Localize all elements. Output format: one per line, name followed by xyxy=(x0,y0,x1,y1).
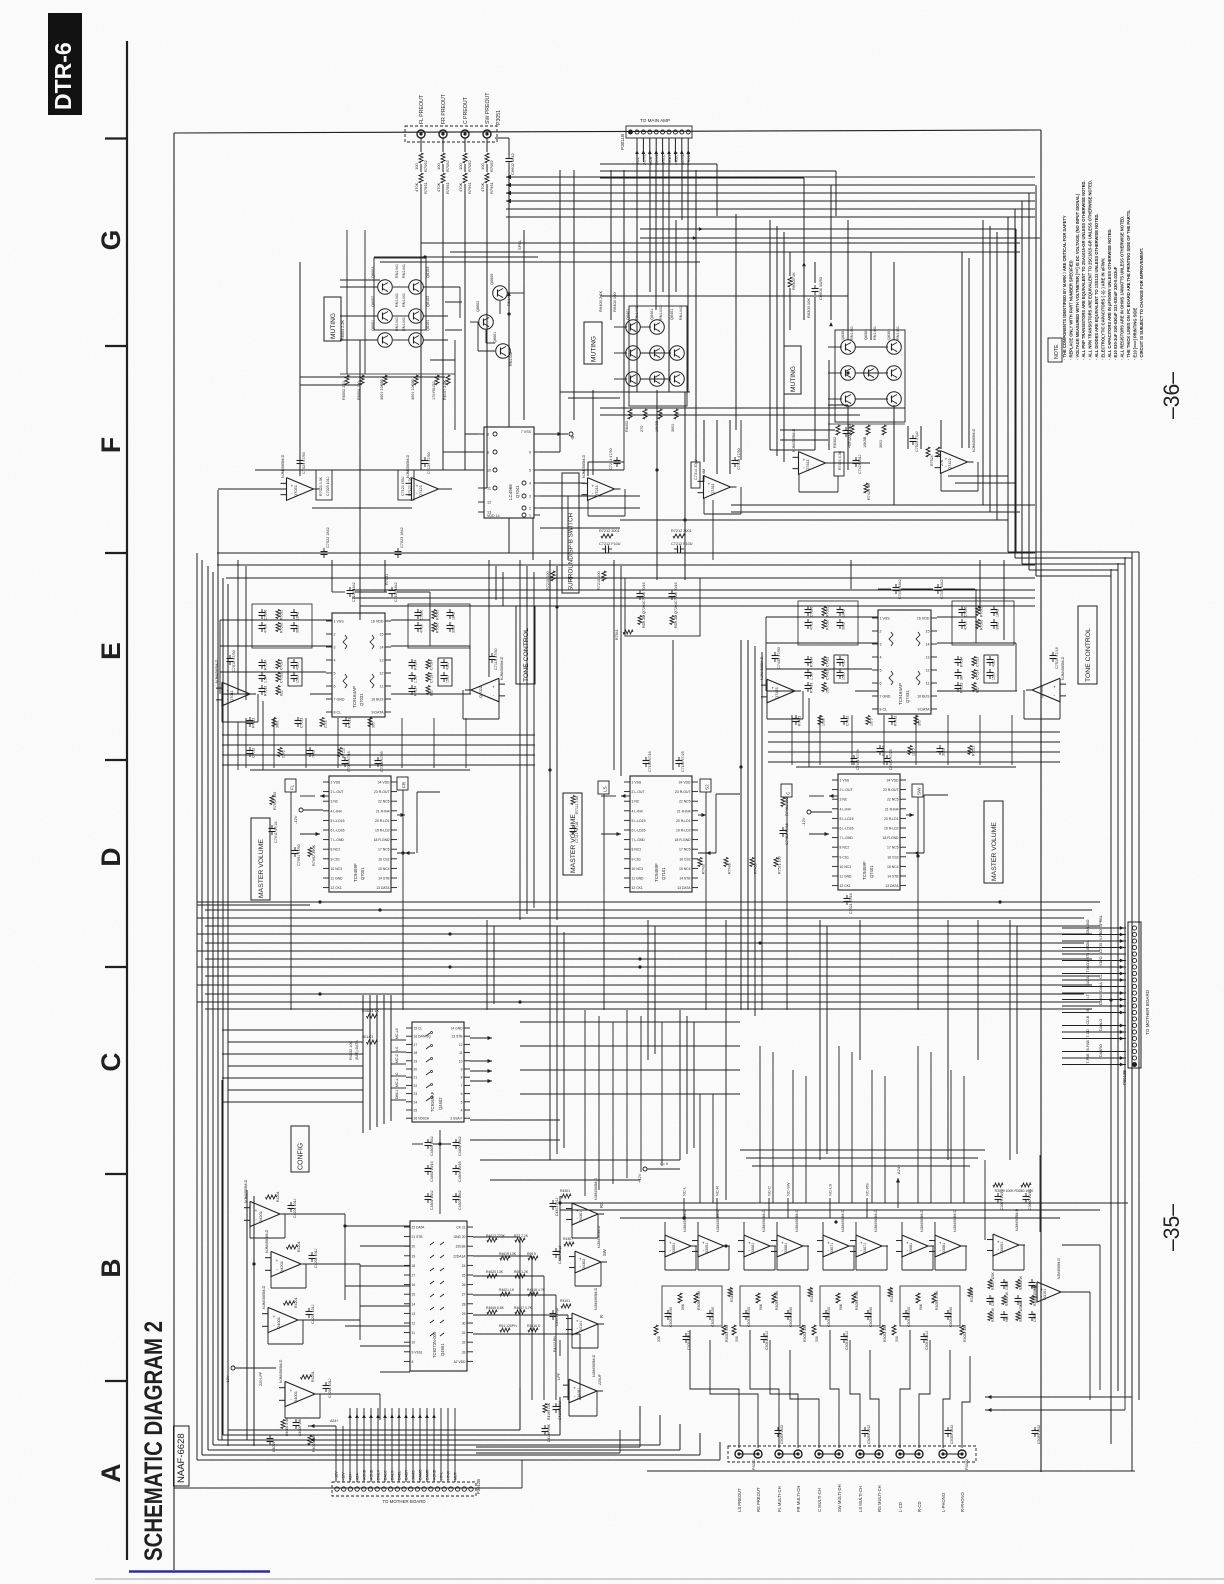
caps above mv left xyxy=(342,751,385,772)
component cluster tone right A xyxy=(798,601,858,645)
op-amp Q4201 bottom-left 2 xyxy=(265,1229,318,1288)
capacitors above tone left xyxy=(332,582,430,602)
op-amp Q3061 output row 3 xyxy=(738,1209,776,1270)
op-amp Q3071 output row 5 xyxy=(817,1209,855,1270)
op-amp Q7311 xyxy=(691,448,741,514)
supply -12V stub left xyxy=(293,808,323,824)
labels NC nodes xyxy=(682,1182,870,1218)
supply +12V stub xyxy=(637,1162,680,1183)
wire -B arrow xyxy=(534,432,575,440)
op-amp Q7461 xyxy=(1024,647,1066,719)
node C xyxy=(781,784,792,797)
wire segs muting1 area xyxy=(300,230,524,553)
connector P3051 preout xyxy=(405,92,502,142)
op-amp Q3101 xyxy=(1031,1258,1067,1303)
node LS xyxy=(598,781,609,794)
op-amp Q7421 upper right xyxy=(910,428,979,491)
grid ruler line xyxy=(126,41,128,1560)
node FL xyxy=(285,779,296,792)
components below tone right xyxy=(793,715,976,756)
resistors below muting 3 xyxy=(788,272,905,448)
wires switch section xyxy=(421,184,1035,580)
resistor pair R7212 xyxy=(599,529,693,553)
components below op-amp Q4001 xyxy=(267,1417,317,1452)
node FR xyxy=(397,777,408,790)
wires to bottom connector xyxy=(308,1408,458,1482)
blue mark bottom-left xyxy=(129,1570,270,1573)
grid tick 4 xyxy=(105,759,127,761)
op-amp Q4001 bottom-left 3 xyxy=(262,1285,315,1344)
resistor groups below op-amp row xyxy=(654,1286,974,1350)
op-amp Q7051 input buffer xyxy=(218,262,332,500)
wires preout pairs xyxy=(739,1453,962,1455)
IC TC9164AF Q4602 config switch xyxy=(406,1022,470,1122)
svg-text:DTR-6: DTR-6 xyxy=(50,42,76,110)
op-amp Q7121 input buffer xyxy=(312,340,452,620)
op-amp Q7021 xyxy=(463,649,505,719)
op-amp Q7011 xyxy=(215,650,258,722)
wire band second xyxy=(380,243,1020,262)
IC TC9164AP Q7031 tone left xyxy=(326,613,391,717)
arrows from Q4602 xyxy=(470,1036,492,1083)
component cluster tone left C xyxy=(259,658,303,696)
scan edge bottom xyxy=(95,1578,1224,1580)
op-amp Q4302 SW xyxy=(553,1225,608,1286)
arrow wires from right edge xyxy=(985,1390,1132,1412)
IC TC9164AP Q7431 tone right xyxy=(872,610,937,714)
capacitor row C4801 C4803 xyxy=(425,1160,463,1214)
wires top-right quadrant xyxy=(600,164,1040,552)
IC TC9459F Q7401 master volume C/SW xyxy=(832,774,906,890)
op-amp Q3071 output row 6 xyxy=(850,1209,888,1270)
op-amp Q7211 xyxy=(582,448,626,516)
component cluster tone left B xyxy=(408,604,470,648)
op-amp Q4181 LPF xyxy=(542,1354,604,1442)
caps above mv middle xyxy=(643,751,686,772)
label MASTER VOLUME middle xyxy=(563,793,582,875)
grid tick 5 xyxy=(105,966,127,968)
label MUTING 1 xyxy=(324,297,341,341)
wire bus central band xyxy=(197,900,1100,1009)
label MASTER VOLUME right xyxy=(984,801,1003,883)
op-amp Q3061 output row 4 xyxy=(771,1209,809,1270)
wires tone control lower rows xyxy=(222,715,1060,768)
label MUTING 3 xyxy=(784,346,801,394)
wire verticals middle xyxy=(238,560,1004,1016)
capacitors C7022 on band xyxy=(321,527,405,558)
wire elbows bottom-left bus xyxy=(197,1388,720,1460)
wires from P3011B xyxy=(635,138,691,360)
grid tick 6 xyxy=(105,1173,127,1175)
supply -12V stub right xyxy=(801,810,832,826)
capacitors C3079 C3080 xyxy=(993,1183,1034,1210)
op-amp Q4001 bottom-left 4 xyxy=(279,1359,332,1418)
supply -12V stub bottom-left xyxy=(225,1366,276,1386)
op-amp Q3091 xyxy=(987,1208,1025,1270)
arrows mv right xyxy=(698,794,924,914)
op-amp Q3081 output row 8 xyxy=(929,1209,967,1270)
junction dots scattered xyxy=(252,312,1112,1265)
op-amp Q3081 output row 7 xyxy=(896,1209,934,1270)
op-amp Q4101 R xyxy=(550,1287,605,1356)
resistor cluster far right xyxy=(987,1271,1038,1322)
wires staircase to preout connector xyxy=(690,1330,970,1448)
component labels right of Q4601 xyxy=(486,1234,546,1332)
arrows into P3013B xyxy=(1062,915,1126,1066)
component cluster tone right B xyxy=(952,601,1014,645)
IC TC9459F Q7001 master volume FL/FR xyxy=(323,776,397,892)
page tab DTR-6 xyxy=(48,13,82,115)
resistor network below P3051 xyxy=(414,138,494,470)
op-amp Q3051 output row 2 xyxy=(692,1209,730,1270)
caps above mv right xyxy=(851,749,894,770)
grid tick 7 xyxy=(105,1380,127,1382)
wire bus middle band xyxy=(197,490,1139,1460)
component cluster tone right D xyxy=(955,655,999,693)
op-amp Q4301 RS xyxy=(550,1177,605,1238)
wire horizontals lower-middle xyxy=(222,1030,985,1372)
wire verticals upper-middle xyxy=(421,170,997,560)
note text block xyxy=(1062,180,1144,360)
grid tick 3 xyxy=(105,552,127,554)
wire band lower 1060-1140 xyxy=(520,1022,740,1094)
wires bottom-left region xyxy=(222,1080,380,1446)
component cluster tone left A xyxy=(252,604,312,648)
arrows mv left xyxy=(269,792,416,866)
grid tick 1 xyxy=(105,137,127,139)
resistors below muting 2 xyxy=(598,291,690,432)
connector P3013B to mother board xyxy=(1122,922,1150,1085)
capacitors above tone right xyxy=(878,579,975,599)
capacitor C6602 xyxy=(495,138,515,280)
wire verticals lower-middle xyxy=(291,905,1017,1200)
resistor R4633 xyxy=(349,1009,379,1060)
capacitor row C4805 C4806 xyxy=(412,1130,462,1160)
wire verticals band to output row xyxy=(585,1010,964,1203)
label CONFIG xyxy=(291,1126,309,1172)
connector P3041 preout strip xyxy=(728,1446,976,1512)
wire bus above op-amp row xyxy=(560,1196,1128,1260)
zener group Q7201 xyxy=(615,578,700,640)
wires far right column xyxy=(985,1155,1100,1400)
transistor trio Q6605 xyxy=(470,274,524,366)
frame border xyxy=(174,130,1135,1570)
component cluster tone left D xyxy=(409,658,453,696)
capacitor row C4892 C4804 xyxy=(425,1161,463,1182)
components below tone left xyxy=(247,574,390,758)
label MASTER VOLUME left xyxy=(251,818,270,900)
wires from Q4601 right xyxy=(473,1237,580,1400)
wires muting3 feeds xyxy=(790,220,894,470)
IC TC9459F Q7101 master volume LS/RS xyxy=(624,776,698,892)
node S2 xyxy=(700,779,711,792)
resistor R7215 xyxy=(546,571,606,590)
connector P3012B to mother board xyxy=(332,1479,481,1504)
op-amp Q4201 bottom-left 1 xyxy=(244,1179,297,1238)
label TONE CONTROL left xyxy=(516,606,535,684)
wires tone sections xyxy=(220,560,1017,1010)
label MUTING 2 xyxy=(584,322,602,364)
wires master volume area xyxy=(197,790,948,910)
connector P3011B to main amp xyxy=(620,118,692,150)
grid tick 2 xyxy=(105,345,127,347)
IC LC4966 Q7041 switch xyxy=(478,427,540,518)
arrows mv middle xyxy=(570,794,717,855)
node SW xyxy=(912,784,923,797)
op-amp Q7411 upper xyxy=(792,424,871,500)
wires right of bottom connector xyxy=(476,1420,647,1488)
IC Q4601 main processor xyxy=(404,1221,473,1371)
component cluster tone right C xyxy=(805,655,849,693)
wire left config bus xyxy=(363,995,406,1133)
wire bus top band xyxy=(506,175,1036,576)
transistor cluster Q6003-Q6103 xyxy=(340,255,538,347)
wire horizontals upper-middle xyxy=(255,280,1015,528)
arrow A24+ xyxy=(896,1164,901,1208)
board label NAAF-6628 xyxy=(174,1426,190,1486)
op-amp Q3051 output row 1 xyxy=(659,1209,697,1270)
capacitors above preout connector xyxy=(775,1425,1042,1444)
label SURROUND/SP-B SWITCH xyxy=(562,473,579,593)
label TONE CONTROL right xyxy=(1078,606,1097,684)
note box heading xyxy=(1048,338,1062,362)
resistors below muting 1 xyxy=(340,319,455,400)
transistor cluster Q6401 xyxy=(614,306,687,406)
op-amp Q7451 xyxy=(760,647,803,719)
transistor cluster Q6301 xyxy=(828,326,905,422)
wires right bus verticals xyxy=(1111,552,1132,1471)
